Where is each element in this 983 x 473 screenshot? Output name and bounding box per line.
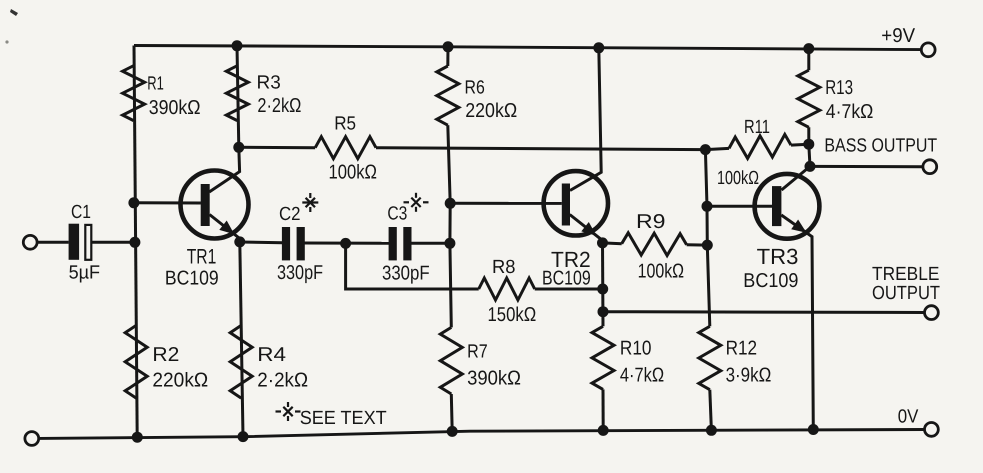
svg-text:4·7kΩ: 4·7kΩ — [620, 365, 664, 387]
svg-text:R10: R10 — [620, 338, 652, 360]
svg-text:R4: R4 — [257, 344, 286, 366]
svg-text:BC109: BC109 — [165, 268, 219, 290]
svg-text:220kΩ: 220kΩ — [465, 100, 517, 122]
svg-text:150kΩ: 150kΩ — [488, 304, 537, 326]
svg-text:R2: R2 — [152, 344, 179, 366]
svg-text:R13: R13 — [825, 77, 853, 99]
svg-text:390kΩ: 390kΩ — [149, 97, 201, 119]
svg-text:TR3: TR3 — [757, 244, 799, 269]
svg-text:TREBLE: TREBLE — [872, 264, 939, 285]
svg-text:4·7kΩ: 4·7kΩ — [826, 101, 874, 123]
svg-text:TR1: TR1 — [187, 246, 217, 269]
svg-text:R11: R11 — [744, 117, 770, 138]
svg-text:C1: C1 — [71, 202, 91, 223]
svg-text:100kΩ: 100kΩ — [638, 261, 685, 283]
svg-text:R9: R9 — [636, 211, 666, 233]
svg-text:R12: R12 — [726, 338, 758, 360]
svg-text:+9V: +9V — [881, 25, 915, 47]
svg-text:100kΩ: 100kΩ — [329, 161, 378, 183]
svg-text:330pF: 330pF — [382, 262, 430, 284]
svg-text:2·2kΩ: 2·2kΩ — [257, 95, 301, 117]
svg-text:BASS OUTPUT: BASS OUTPUT — [824, 135, 937, 156]
svg-text:BC109: BC109 — [542, 268, 591, 290]
svg-text:100kΩ: 100kΩ — [717, 168, 759, 189]
svg-text:R7: R7 — [467, 342, 488, 363]
svg-text:2·2kΩ: 2·2kΩ — [257, 369, 308, 391]
svg-text:C2: C2 — [279, 204, 301, 225]
svg-text:OUTPUT: OUTPUT — [872, 283, 940, 304]
svg-text:R5: R5 — [334, 114, 356, 135]
svg-text:220kΩ: 220kΩ — [152, 369, 208, 391]
svg-text:R1: R1 — [147, 74, 164, 95]
svg-text:3·9kΩ: 3·9kΩ — [726, 365, 772, 387]
svg-text:C3: C3 — [387, 203, 407, 224]
svg-text:390kΩ: 390kΩ — [467, 368, 521, 390]
svg-text:0V: 0V — [898, 406, 919, 427]
svg-text:R6: R6 — [465, 78, 485, 99]
svg-text:SEE TEXT: SEE TEXT — [300, 408, 387, 429]
svg-text:330pF: 330pF — [277, 262, 323, 284]
svg-text:R3: R3 — [257, 73, 281, 94]
svg-text:BC109: BC109 — [743, 270, 798, 292]
svg-text:R8: R8 — [492, 257, 516, 278]
svg-text:5µF: 5µF — [69, 263, 101, 284]
